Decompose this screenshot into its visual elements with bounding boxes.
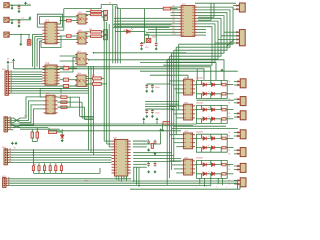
svg-text:OK6: OK6 xyxy=(78,30,82,32)
wire LED right xyxy=(130,31,145,33)
wire center bus vertical xyxy=(112,5,114,64)
wire cap rail right 2 xyxy=(147,108,174,110)
wire R15 right xyxy=(69,67,77,69)
wire H2 to IC3 loop xyxy=(20,101,43,120)
diode Dg2d xyxy=(211,117,214,121)
wire IC2 to OK7 a xyxy=(60,55,77,57)
wire R8 right xyxy=(101,77,104,79)
wire down to ground xyxy=(20,34,22,42)
junction xyxy=(93,52,95,54)
wire right bus vertical xyxy=(166,59,168,185)
wire c4 top xyxy=(141,42,143,43)
wire bottom edge run xyxy=(130,188,240,190)
wire IC5 left fan xyxy=(114,26,178,28)
VCC arrow J1 xyxy=(25,2,27,5)
wire rn bottom xyxy=(49,171,51,174)
crystal Q1 xyxy=(146,38,151,42)
ground near R18 xyxy=(162,129,164,132)
svg-text:P2: P2 xyxy=(173,11,175,13)
resistor R6 xyxy=(61,96,67,99)
resistor R7 xyxy=(61,101,67,104)
svg-text:100n: 100n xyxy=(155,112,159,114)
wire feed g1 ic drop xyxy=(187,75,189,79)
IC IC4 xyxy=(112,139,131,176)
wire vcc drop xyxy=(13,62,15,69)
wire top v1 xyxy=(210,3,212,20)
wire bridge loop g3 xyxy=(196,134,227,152)
wire conn pin stub xyxy=(234,165,238,167)
VCC arrow near IC4 xyxy=(160,129,162,132)
wire xtal v2 xyxy=(155,27,157,43)
wire bridge out1 g3 xyxy=(227,137,233,139)
junction xyxy=(11,4,13,6)
wire IC5 left stub xyxy=(171,9,179,11)
wire R4 to Q8 xyxy=(102,35,104,37)
resistor R21 xyxy=(66,19,71,22)
wire H1 to IC2 xyxy=(10,76,42,78)
wire rn rail up xyxy=(99,168,101,173)
wire IC4 p2 v xyxy=(160,139,162,144)
ground below J1 xyxy=(11,7,13,10)
wire to ground xyxy=(11,5,13,6)
wire IC4 p5 to bus xyxy=(133,152,171,154)
wire right bus vertical xyxy=(168,56,170,178)
wire bridge out1 g4 xyxy=(227,164,233,166)
resistor R14 xyxy=(163,7,170,10)
capacitor C5 xyxy=(155,42,158,47)
wire T2 pin xyxy=(224,31,237,33)
wire H3 long run xyxy=(9,159,111,161)
wire conn pin stub xyxy=(234,102,238,104)
wire bridge row1 g4 xyxy=(196,164,227,166)
svg-text:1N4148: 1N4148 xyxy=(196,158,203,160)
ground J3 xyxy=(20,43,22,46)
svg-text:1k: 1k xyxy=(60,94,62,96)
wire long rail H xyxy=(49,130,181,132)
capacitor C2 xyxy=(18,19,21,24)
connector X4 xyxy=(237,97,246,106)
wire straight mid xyxy=(14,119,21,121)
resistor R17 xyxy=(63,84,68,87)
wire center bus vertical long xyxy=(108,24,110,147)
wire bus to OK3 pin xyxy=(174,142,181,144)
wire rail hook left xyxy=(10,118,12,126)
resistor R2 xyxy=(91,14,102,16)
svg-text:P6: P6 xyxy=(173,23,175,25)
wire H3 long run xyxy=(9,154,111,156)
wire bridge v g4 xyxy=(220,174,222,179)
wire IC1 to OK5 b xyxy=(60,16,78,18)
IC OK1 xyxy=(181,79,195,95)
wire right bus vertical xyxy=(171,53,173,170)
wire H3 long run xyxy=(9,149,111,151)
wire IC4 p2 xyxy=(133,143,160,145)
svg-text:1N4148: 1N4148 xyxy=(196,78,203,80)
wire R1 to Q3 xyxy=(102,11,104,13)
wire IC5 right staircase xyxy=(179,7,233,44)
wire IC2 to R15 xyxy=(60,67,64,69)
wire IC5 right staircase xyxy=(163,27,212,65)
VCC arrow rail F a xyxy=(143,118,145,121)
ground below J2 xyxy=(11,21,13,24)
wire vcc drop IC4 xyxy=(160,132,162,139)
IC IC3 xyxy=(43,95,57,114)
wire group4 drop xyxy=(210,178,212,186)
wire rn top xyxy=(60,163,62,166)
wire T2 pin xyxy=(218,38,237,40)
svg-text:P5: P5 xyxy=(173,20,175,22)
pin header SV1 xyxy=(5,70,12,95)
svg-text:10k: 10k xyxy=(89,9,92,11)
junction xyxy=(88,59,90,61)
wire crossover c xyxy=(14,125,21,127)
wire long rail B into bridge1 xyxy=(89,60,225,81)
svg-text:16M: 16M xyxy=(152,37,156,39)
capacitor C8 xyxy=(145,109,148,114)
VCC arrow mid rail xyxy=(13,59,15,62)
wire H2 to IC3 loop xyxy=(20,105,43,123)
wire IC5 right staircase xyxy=(172,16,224,54)
wire bridge v g2 xyxy=(220,105,222,109)
wire bus to OK2 pin xyxy=(172,109,182,111)
wire xtal link xyxy=(145,33,149,35)
wire R13 top xyxy=(48,128,50,131)
wire H1 to IC2 xyxy=(10,78,42,80)
wire joining resistors xyxy=(69,97,71,107)
wire bridge loop g4 xyxy=(196,160,227,178)
wire T2 pin xyxy=(221,35,237,37)
wire bus to OK4 pin xyxy=(174,168,181,170)
diode Dg4a xyxy=(203,163,206,167)
wire OK3 to bridge xyxy=(195,137,196,139)
resistor RN4 xyxy=(55,166,57,171)
wire IC5 right staircase xyxy=(170,18,221,56)
wire long rail F xyxy=(11,123,196,125)
wire bridge v g4 xyxy=(210,174,212,179)
svg-text:P3: P3 xyxy=(173,14,175,16)
wire IC1 pin to vertical xyxy=(60,29,64,31)
wire IC5 left stub xyxy=(171,12,179,14)
wire IC5 right short xyxy=(198,31,206,33)
ground under C4 xyxy=(140,47,142,50)
wire OK4 to bridge xyxy=(195,164,196,166)
svg-text:P9: P9 xyxy=(173,31,175,33)
wire bus to OK1 pin xyxy=(176,92,181,94)
wire R21 to OK5 xyxy=(71,20,78,22)
diode Dg3a xyxy=(203,137,206,141)
wire bundle IC1 to rails xyxy=(34,43,36,69)
wire loop right of IC2 xyxy=(60,58,77,73)
resistor R22 xyxy=(66,35,71,38)
wire R9 right xyxy=(101,83,106,85)
wire long feed to C1 xyxy=(140,70,238,72)
wire caps top join xyxy=(147,83,153,85)
wire top long run b xyxy=(117,8,163,10)
wire conn pin stub xyxy=(234,116,238,118)
junction xyxy=(144,31,146,33)
wire top h1 xyxy=(198,19,211,21)
wire OK6 to R3 xyxy=(86,31,91,33)
wire bundle upper xyxy=(32,34,34,43)
wire IC4 bottom stubs xyxy=(120,176,122,182)
wire R10 down xyxy=(31,138,33,141)
IC IC2 xyxy=(42,65,59,85)
jack J3 xyxy=(4,32,9,37)
wire bridge v g1 xyxy=(220,80,222,84)
wire IC4 down drops xyxy=(135,167,137,184)
wire H2 stub xyxy=(9,122,13,124)
capacitor C7 xyxy=(151,84,154,89)
wire H4 run4 xyxy=(8,184,210,186)
wire center bus vertical long xyxy=(103,15,105,141)
wire IC4 bottom stubs xyxy=(118,176,120,181)
wire H2 stub xyxy=(9,126,13,128)
wire rn bottom xyxy=(38,171,40,174)
wire loop above IC1 outer xyxy=(40,17,61,24)
IC IC1 xyxy=(42,22,59,44)
wire OK5 to R2 xyxy=(86,14,91,16)
junction xyxy=(20,34,22,36)
wire rn top xyxy=(55,163,57,166)
wire H1 to IC2 xyxy=(10,83,42,85)
capacitor C9 xyxy=(151,109,154,114)
wire rn bottom xyxy=(55,171,57,174)
wire vcc stub a xyxy=(143,121,145,124)
diode D10 xyxy=(60,135,64,138)
resistor R1 xyxy=(91,11,102,13)
wire IC3 to resistor xyxy=(58,101,61,103)
wire right bus vertical xyxy=(178,44,180,110)
wire IC5 left fan xyxy=(114,17,178,19)
wire bundle link to IC1 xyxy=(37,38,42,40)
wire to ground xyxy=(11,20,13,21)
wire bridge out2 g4 xyxy=(227,173,233,175)
wire conn pin stub xyxy=(234,112,238,114)
wire br v2 xyxy=(239,185,241,189)
wire IC5 left fan short xyxy=(148,29,178,31)
wire bundle upper xyxy=(38,41,40,43)
wire group4 drop xyxy=(203,178,205,186)
connector X9 xyxy=(237,178,246,187)
wire right mid 3 xyxy=(145,106,176,108)
wire IC2 to OK7 b xyxy=(60,60,77,62)
wire bridge row1 g1 xyxy=(196,84,227,86)
wire link to C2 xyxy=(196,99,234,101)
ground under C7 xyxy=(151,90,153,93)
wire rn bottom xyxy=(32,171,34,174)
wire bridge v g3 xyxy=(200,134,202,138)
wire VCC to H1 xyxy=(7,64,9,70)
connector X7 xyxy=(237,148,246,157)
resistor RN1 xyxy=(38,166,40,171)
wire feed g1 ic xyxy=(150,74,188,76)
junction xyxy=(33,149,35,151)
wire IC3 to resistor xyxy=(58,96,61,98)
wire J1 tip net xyxy=(9,4,31,6)
wire top long run a xyxy=(64,8,101,10)
resistor in bridge g3 row2 xyxy=(222,146,226,149)
connector X6 xyxy=(237,130,246,139)
wire IC3 net vertical xyxy=(84,107,86,119)
junction xyxy=(18,19,20,21)
svg-text:SV2: SV2 xyxy=(24,115,28,117)
ground under C6 xyxy=(146,90,148,93)
wire conn pin stub xyxy=(234,80,238,82)
wire bus to OK3 pin xyxy=(172,138,182,140)
wire R11 down xyxy=(36,138,38,141)
wire bridge v g2 xyxy=(210,105,212,109)
resistor R4 xyxy=(91,35,102,38)
resistor R18 xyxy=(163,122,169,125)
connector X2 xyxy=(236,30,245,46)
connector X5 xyxy=(237,111,246,120)
wire H2 to IC3 loop xyxy=(20,109,43,125)
IC OK4 xyxy=(181,159,195,175)
jack J1 xyxy=(4,3,9,8)
wire H1 to IC2 xyxy=(10,80,42,82)
wire IC4 p6 to bus xyxy=(133,155,174,157)
wire bridge row2 g4 xyxy=(196,173,227,175)
capacitor C13 xyxy=(154,162,157,167)
wire bridge v g3 xyxy=(220,134,222,138)
svg-text:GND: GND xyxy=(84,180,89,182)
wire IC5 left stub xyxy=(171,15,179,17)
capacitor C1 xyxy=(18,5,21,10)
wire rn bottom xyxy=(60,171,62,174)
resistor RN0 xyxy=(32,166,34,171)
wire top bridge over Q3 xyxy=(101,5,117,9)
wire bridge out2 g3 xyxy=(227,147,233,149)
svg-text:LED: LED xyxy=(123,30,127,32)
wire bundle link to IC1 xyxy=(39,40,42,42)
junction xyxy=(33,152,35,154)
wire IC5 left stub xyxy=(171,6,179,8)
wire IC4 right short xyxy=(133,146,147,148)
wire bridge v g2 xyxy=(200,119,202,124)
resistor in bridge g1 row2 xyxy=(222,93,226,96)
wire conn pin stub xyxy=(234,98,238,100)
wire rn top xyxy=(49,163,51,166)
wire IC4 p1 xyxy=(133,140,147,142)
wire IC5 left fan xyxy=(114,23,178,25)
wire IC3 to resistor xyxy=(58,106,61,108)
wire caps top join 2 xyxy=(147,108,153,110)
wire horizontal to bus x93 xyxy=(80,115,94,117)
wire bus to OK4 pin xyxy=(176,172,181,174)
wire IC5 right staircase xyxy=(165,24,215,62)
wire rn top xyxy=(38,163,40,166)
wire J3 tip net xyxy=(9,33,30,35)
wire bridge row2 g2 xyxy=(196,118,227,120)
resistor R10 xyxy=(31,132,34,138)
resistor R11 xyxy=(36,132,39,138)
diode Dg1b xyxy=(211,83,214,87)
wire group4 drop xyxy=(199,178,201,184)
wire H3 long run xyxy=(9,157,111,159)
wire bridge row2 g1 xyxy=(196,93,227,95)
wire H2 stub xyxy=(9,129,13,131)
resistor RN3 xyxy=(49,166,51,171)
svg-text:SV3: SV3 xyxy=(2,147,6,149)
svg-text:SV1: SV1 xyxy=(2,69,6,71)
resistor R9 xyxy=(93,82,102,85)
wire T1 pin xyxy=(233,5,237,7)
wire crossover b xyxy=(14,118,21,123)
svg-text:P8: P8 xyxy=(173,28,175,30)
wire OK8 to R9 xyxy=(86,83,93,85)
wire IC5 right staircase xyxy=(174,13,227,51)
svg-text:SV4: SV4 xyxy=(2,176,6,178)
wire vertical right of IC1 xyxy=(63,9,65,31)
wire into IC3 pin1 xyxy=(40,96,43,98)
wire bridge v g4 xyxy=(200,160,202,164)
wire IC4 p10 xyxy=(133,166,147,168)
wire bundle IC1 to rails xyxy=(36,43,38,67)
ground below C2 xyxy=(18,24,20,27)
wire bus to OK3 pin xyxy=(176,146,181,148)
ground under C5 xyxy=(155,47,157,50)
wire bus to OK1 pin xyxy=(169,80,181,82)
wire R16 to OK8 xyxy=(69,79,77,81)
wire bus to OK4 pin xyxy=(169,160,181,162)
wire long rail C into bridge1 xyxy=(140,63,216,81)
wire H4 run3 long xyxy=(8,182,237,184)
pin header SV4 xyxy=(3,177,10,187)
wire R18 gnd stub xyxy=(162,124,164,128)
diode Dg3c xyxy=(203,146,206,150)
wire bridge v g3 xyxy=(200,148,202,153)
connector X3 xyxy=(237,79,246,88)
capacitor C4 xyxy=(140,42,143,47)
wire rn bottom xyxy=(44,171,46,174)
diode Dg1c xyxy=(203,92,206,96)
wire H1 to IC2 xyxy=(10,73,42,75)
wire bridge loop g1 xyxy=(196,80,227,98)
transistor pair Q3/Q4 xyxy=(104,10,108,20)
wire group4 drop xyxy=(217,178,219,184)
wire bridge row1 g3 xyxy=(196,137,227,139)
svg-text:P7: P7 xyxy=(173,25,175,27)
wire loop below IC1 xyxy=(41,36,61,47)
wire center bus vertical xyxy=(117,7,119,63)
wire bus to OK4 pin xyxy=(172,164,182,166)
resistor R15 xyxy=(63,67,68,70)
capacitor C6 xyxy=(145,84,148,89)
junction xyxy=(18,4,20,6)
diode Dg3d xyxy=(211,146,214,150)
VCC arrow H3 b xyxy=(15,142,17,145)
wire R2 to Q4 xyxy=(102,16,104,18)
diode Dg4d xyxy=(211,172,214,176)
wire H3 long run xyxy=(9,162,111,164)
diode Dg1d xyxy=(211,92,214,96)
wire top h2 xyxy=(198,16,214,18)
wire bus to OK1 pin xyxy=(172,84,182,86)
resistor in bridge g2 row2 xyxy=(222,118,226,121)
wire long feed to C4 xyxy=(172,127,238,129)
wire diagonal xyxy=(227,39,235,46)
wire center bus vertical xyxy=(119,9,121,64)
wire long rail E into bridge1 xyxy=(14,69,205,81)
wire bundle IC1 to rails xyxy=(38,43,40,69)
wire bridge out1 g2 xyxy=(227,109,233,111)
wire conn pin stub xyxy=(234,153,238,155)
svg-text:100n: 100n xyxy=(155,87,159,89)
capacitor C12 xyxy=(147,162,150,167)
wire IC1 to R21 xyxy=(60,20,67,22)
wire bundle upper xyxy=(36,39,38,43)
wire IC4 bottom stubs xyxy=(123,176,125,180)
